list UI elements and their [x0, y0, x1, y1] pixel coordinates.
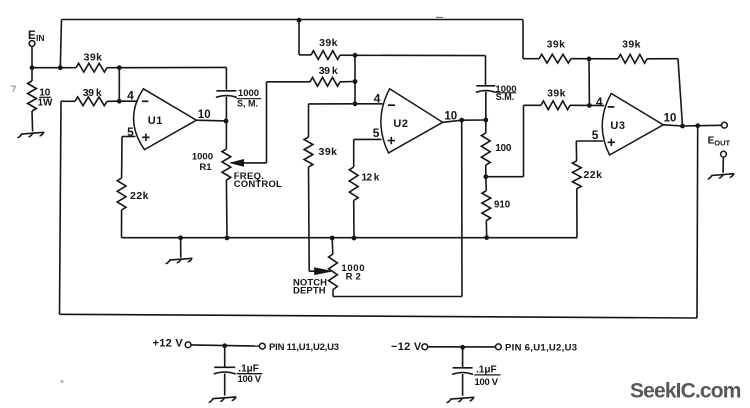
svg-text:39k: 39k: [547, 87, 566, 99]
svg-text:5: 5: [592, 128, 599, 142]
svg-text:39k: 39k: [319, 37, 338, 49]
svg-text:39k: 39k: [84, 52, 103, 64]
svg-text:E: E: [28, 30, 36, 42]
svg-text:12 k: 12 k: [362, 173, 380, 184]
svg-text:DEPTH: DEPTH: [293, 286, 326, 297]
svg-text:1W: 1W: [38, 98, 54, 109]
svg-text:10: 10: [198, 109, 211, 121]
svg-text:22k: 22k: [130, 190, 149, 202]
svg-text:39k: 39k: [319, 146, 338, 158]
svg-text:1000: 1000: [192, 152, 213, 163]
svg-text:4: 4: [596, 95, 603, 109]
svg-text:U1: U1: [148, 115, 163, 127]
svg-text:R1: R1: [199, 162, 212, 173]
svg-text:910: 910: [494, 200, 510, 211]
svg-text:5: 5: [373, 126, 380, 140]
svg-text:22k: 22k: [583, 169, 602, 181]
svg-text:10: 10: [444, 110, 457, 122]
svg-text:100: 100: [495, 143, 512, 154]
svg-text:U2: U2: [393, 118, 408, 130]
svg-text:4: 4: [127, 89, 134, 103]
svg-text:100 V: 100 V: [238, 374, 262, 385]
svg-text:4: 4: [374, 92, 381, 106]
svg-text:S.M.: S.M.: [496, 92, 515, 102]
svg-text:R 2: R 2: [346, 271, 361, 282]
svg-text:SeekIC.com: SeekIC.com: [630, 380, 741, 403]
svg-text:IN: IN: [36, 33, 45, 43]
svg-text:+12 V: +12 V: [153, 337, 184, 349]
svg-text:39k: 39k: [547, 39, 566, 51]
svg-text:CONTROL: CONTROL: [234, 179, 282, 190]
svg-text:PIN 11,U1,U2,U3: PIN 11,U1,U2,U3: [269, 342, 339, 353]
svg-text:S, M.: S, M.: [237, 99, 258, 109]
svg-text:.1μF: .1μF: [238, 364, 259, 375]
svg-text:5: 5: [127, 125, 134, 139]
svg-text:OUT: OUT: [714, 139, 730, 148]
svg-text:PIN 6,U1,U2,U3: PIN 6,U1,U2,U3: [505, 343, 577, 354]
svg-text:10: 10: [664, 113, 677, 125]
svg-text:.1μF: .1μF: [476, 364, 497, 375]
svg-text:100 V: 100 V: [475, 377, 499, 388]
svg-text:39k: 39k: [622, 39, 641, 51]
svg-text:−12 V: −12 V: [391, 341, 422, 353]
svg-text:39 k: 39 k: [83, 87, 102, 99]
svg-text:39 k: 39 k: [319, 65, 338, 77]
svg-text:U3: U3: [610, 120, 625, 132]
